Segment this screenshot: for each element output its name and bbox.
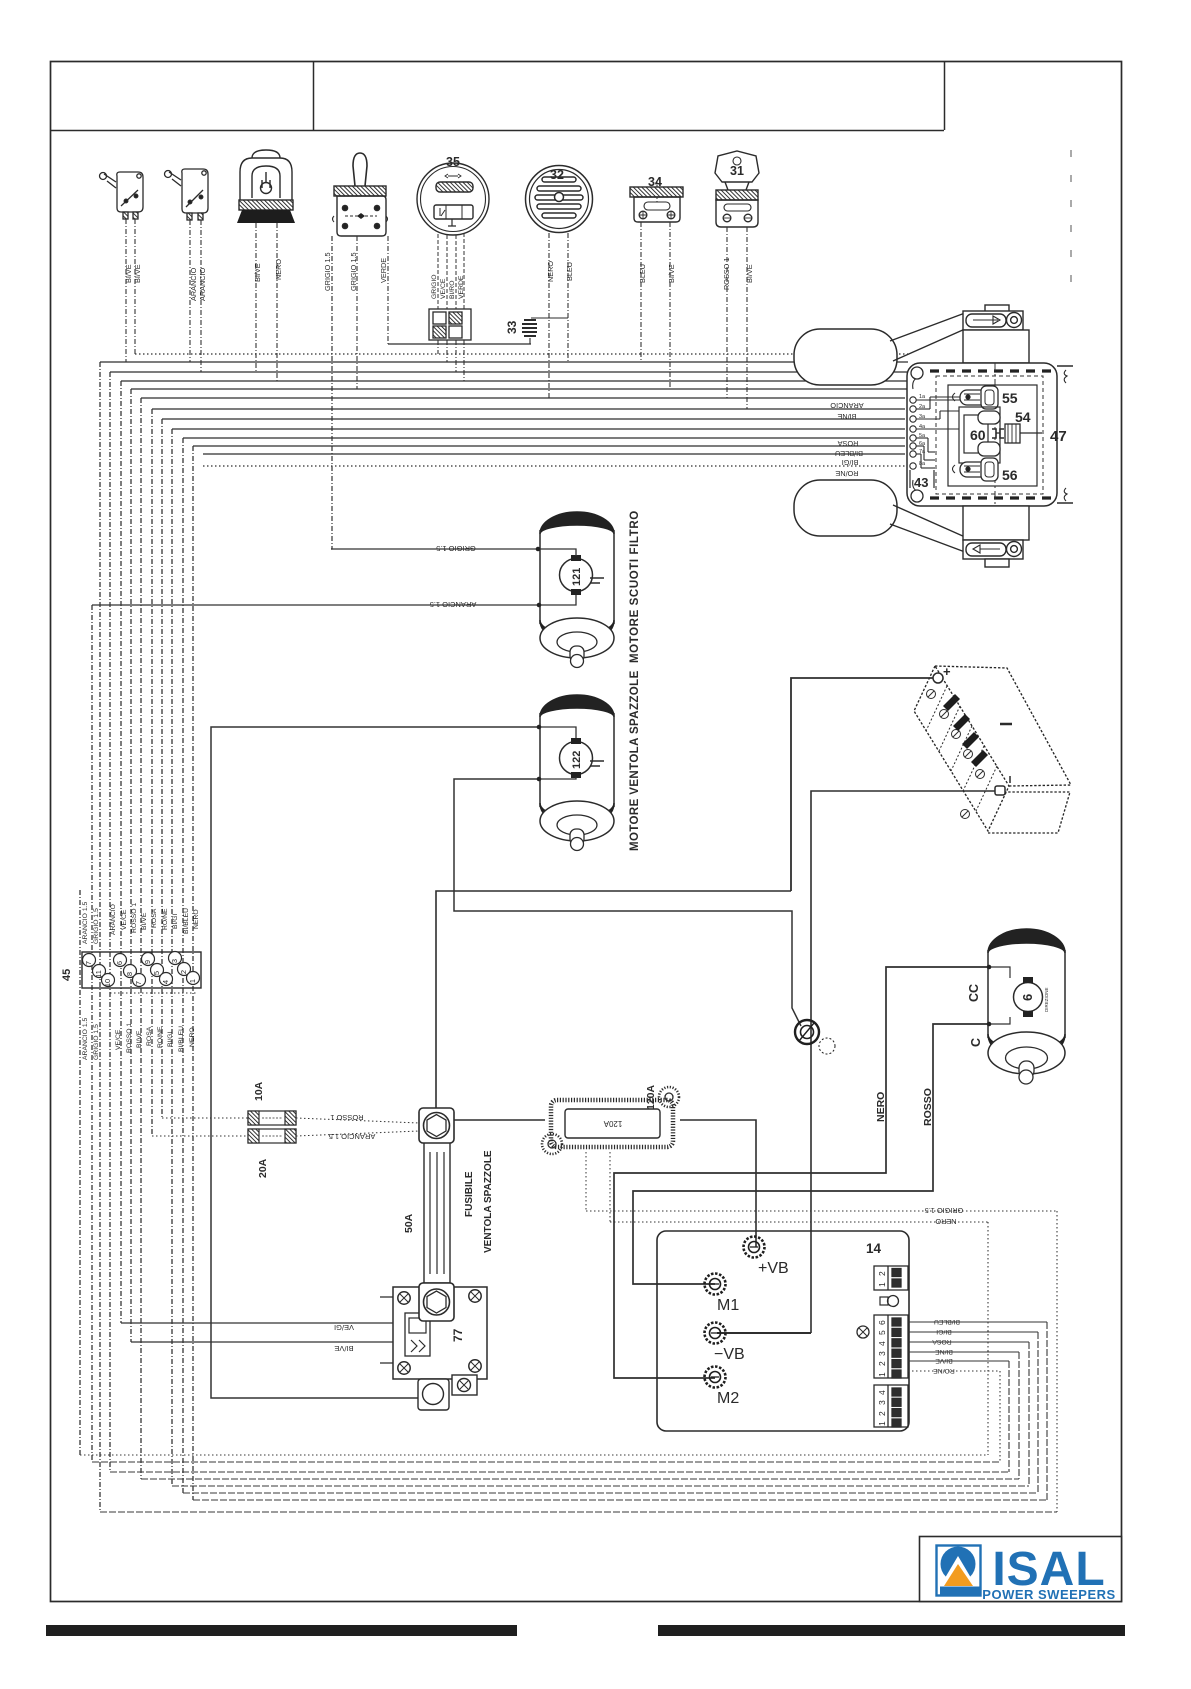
svg-text:35: 35 — [446, 155, 460, 169]
wire horn NERO — [548, 233, 550, 398]
wire J1 pin2 BI/VE — [908, 1360, 1009, 1362]
wire bottom row y1455 dotted — [80, 1454, 988, 1456]
svg-text:8: 8 — [125, 972, 134, 976]
wire beacon pin2 — [276, 223, 278, 381]
wire row y419 — [162, 418, 905, 420]
connector J1 pin numbers — [877, 1320, 887, 1377]
upper bracket — [963, 305, 1023, 330]
wire J1 pin3 BI/NE — [908, 1351, 1019, 1353]
header table divider 1 — [313, 62, 315, 130]
svg-text:ARANCIO 1.5: ARANCIO 1.5 — [82, 1017, 89, 1060]
svg-text:43: 43 — [914, 475, 928, 490]
svg-text:1: 1 — [877, 1372, 887, 1377]
svg-text:ROSSO: ROSSO — [922, 1088, 934, 1126]
connector J3 pin numbers — [877, 1390, 887, 1426]
svg-text:BI/VE: BI/VE — [133, 264, 142, 283]
svg-text:120A: 120A — [603, 1119, 622, 1128]
logo box border — [920, 1537, 1122, 1602]
battery cell dividers — [926, 686, 997, 811]
motor 121 MOTORE SCUOTI FILTRO — [540, 512, 614, 668]
svg-text:BI/VE: BI/VE — [667, 264, 676, 283]
svg-text:3: 3 — [170, 959, 179, 963]
wire S1 pin2 — [134, 219, 136, 354]
wire -VB to battery minus — [717, 1332, 811, 1334]
wire bundle x121 — [120, 381, 122, 1323]
wire row y398 — [141, 397, 905, 399]
lower column — [963, 506, 1029, 540]
wire row y354 dotted — [135, 353, 908, 355]
lower arm — [890, 505, 965, 552]
wire labels above strip 45 — [82, 901, 200, 944]
svg-text:2: 2 — [877, 1361, 887, 1366]
svg-text:BI/VE: BI/VE — [124, 264, 133, 283]
wire GRIGIO 1.5 to motor 121 — [331, 549, 576, 556]
svg-text:NERO: NERO — [189, 1027, 196, 1047]
strip 45 terminal circles — [83, 952, 200, 987]
svg-text:ROSSO 1: ROSSO 1 — [131, 903, 138, 933]
wire bottom row y1462 — [92, 1461, 1000, 1463]
svg-text:RO/NE: RO/NE — [162, 908, 169, 930]
svg-text:BI/BLEU: BI/BLEU — [934, 1318, 960, 1325]
upper column — [963, 330, 1029, 363]
terminal M1 — [705, 1274, 726, 1295]
pin numbers — [919, 394, 926, 467]
svg-text:ROSSO 1: ROSSO 1 — [330, 1113, 363, 1122]
terminal +VB — [744, 1237, 765, 1258]
wire row y389 — [131, 388, 908, 390]
ISAL logo square — [937, 1546, 981, 1596]
dashed row GRIGIO 1.5 — [586, 1210, 1057, 1212]
fuse 20A — [248, 1129, 296, 1143]
svg-text:NERO: NERO — [546, 261, 555, 282]
wire battery plus — [791, 678, 933, 891]
svg-text:ROSA: ROSA — [146, 1026, 153, 1046]
wire row y409 — [152, 408, 905, 410]
svg-text:POWER SWEEPERS: POWER SWEEPERS — [982, 1587, 1115, 1602]
svg-text:ROSSO 1: ROSSO 1 — [722, 258, 731, 290]
wire row y438 — [183, 437, 905, 439]
connector J2 2-pin — [874, 1266, 908, 1290]
svg-text:BI/VE: BI/VE — [136, 1030, 143, 1048]
wire labels below strip 45 — [82, 1017, 196, 1060]
svg-text:VERDE: VERDE — [458, 275, 465, 299]
svg-text:GRIGIO 1.5: GRIGIO 1.5 — [925, 1206, 964, 1215]
wire J1 pin1 RO/NE — [908, 1370, 1000, 1372]
svg-text:6: 6 — [115, 961, 124, 965]
controller box 14 — [657, 1231, 909, 1431]
wire right x1029 — [1028, 1342, 1030, 1486]
svg-text:GRIGIO: GRIGIO — [431, 274, 438, 299]
svg-text:ROSA: ROSA — [932, 1338, 952, 1345]
wire 31 BI/VE — [746, 227, 748, 409]
svg-text:VENTOLA SPAZZOLE: VENTOLA SPAZZOLE — [483, 1150, 494, 1253]
left bundle vertical wires — [80, 362, 193, 1512]
wire S1 pin1 — [125, 219, 127, 362]
wire bundle x141 — [140, 398, 142, 1479]
svg-text:33: 33 — [505, 320, 519, 334]
connector key circle — [888, 1296, 899, 1307]
wire labels at steering (mirrored) — [830, 401, 864, 478]
svg-text:1a: 1a — [919, 394, 926, 400]
svg-text:34: 34 — [648, 175, 662, 189]
svg-text:2: 2 — [877, 1271, 887, 1276]
wire 50A fuse to battery plus — [436, 891, 791, 1108]
wire bundle x80 — [79, 890, 81, 1455]
wire battery minus — [811, 791, 995, 1333]
svg-text:MOTORE VENTOLA SPAZZOLE: MOTORE VENTOLA SPAZZOLE — [629, 670, 641, 851]
svg-text:5: 5 — [152, 971, 161, 975]
svg-text:47: 47 — [1050, 428, 1067, 445]
horn 32 — [526, 166, 593, 233]
svg-text:7: 7 — [134, 981, 143, 985]
wire row y429 — [172, 428, 905, 430]
bottom nest rows — [80, 1455, 1057, 1512]
wire motor 122 upper to contactor 77 — [211, 727, 539, 1398]
wire fuse 10A to 50A ROSSO 1 — [296, 1118, 419, 1123]
wire right x1019 — [1018, 1352, 1020, 1479]
wire 34 BLEU — [640, 222, 642, 362]
svg-text:C: C — [969, 1038, 983, 1047]
svg-text:ROSA: ROSA — [151, 908, 158, 928]
wire toggle pin2 — [356, 236, 358, 389]
inner dashed box — [936, 376, 1043, 494]
wire bottom row y1479 — [141, 1478, 1019, 1480]
wire right x1009 — [1008, 1361, 1010, 1472]
battery plus terminal — [933, 673, 943, 683]
svg-text:32: 32 — [550, 168, 564, 182]
fuse 50A bottom nut — [419, 1283, 454, 1321]
dashed row NERO — [610, 1221, 988, 1223]
housing corner bolts — [911, 367, 923, 379]
wire J1 pin6 BI/BLEU — [908, 1321, 1047, 1323]
svg-text:2: 2 — [179, 970, 188, 974]
terminal strip 45 — [82, 952, 201, 988]
wire bundle to fuse 10A — [162, 1117, 248, 1119]
svg-text:RO/NE: RO/NE — [933, 1367, 955, 1374]
housing dash rows — [930, 369, 1056, 372]
svg-text:+VB: +VB — [758, 1260, 789, 1277]
wires gauge to connector — [438, 233, 464, 309]
svg-text:ARANCIO 1.5: ARANCIO 1.5 — [430, 600, 477, 609]
svg-text:56: 56 — [1002, 467, 1018, 483]
connector block under gauge 35 — [429, 309, 471, 340]
wire S2 pin1 — [189, 220, 191, 362]
battery cell caps — [927, 690, 985, 819]
svg-text:BI/RO: BI/RO — [449, 280, 456, 299]
connector 54 — [992, 424, 1042, 443]
footer bar right — [658, 1625, 1125, 1636]
microswitch S2 — [165, 169, 209, 220]
svg-text:1: 1 — [188, 979, 197, 983]
wire toggle pin3 VERDE — [387, 236, 389, 344]
battery — [914, 666, 1071, 833]
svg-text:GRIGIO 1.5: GRIGIO 1.5 — [93, 1024, 100, 1060]
svg-text:BLEU: BLEU — [565, 262, 574, 281]
svg-text:BI/BLEU: BI/BLEU — [835, 449, 863, 458]
wire bundle x162 — [161, 419, 163, 1118]
wire S2 pin2 — [200, 220, 202, 372]
svg-text:VE/CE: VE/CE — [440, 278, 447, 299]
wire row y362 — [100, 361, 908, 363]
fuse 120A — [542, 1087, 679, 1154]
svg-text:NERO: NERO — [875, 1092, 887, 1122]
svg-text:6: 6 — [1020, 994, 1035, 1001]
wire bottom row y1500 — [193, 1499, 1047, 1501]
svg-text:ARANCIO 1.5: ARANCIO 1.5 — [329, 1132, 376, 1141]
svg-text:GRIGIO 1.5: GRIGIO 1.5 — [323, 252, 332, 291]
battery connector flags — [943, 694, 988, 767]
toggle switch — [333, 153, 388, 236]
header table divider 2 — [944, 62, 946, 130]
svg-text:5: 5 — [877, 1330, 887, 1335]
svg-text:NERO: NERO — [193, 909, 200, 929]
mid dotted vertical GRIGIO — [585, 1152, 587, 1211]
svg-text:BLEU: BLEU — [638, 264, 647, 283]
wire row VERDE y344 — [388, 343, 531, 345]
wire J1 pin4 ROSA — [908, 1341, 1029, 1343]
svg-text:55: 55 — [1002, 390, 1018, 406]
upper arm — [890, 313, 965, 361]
svg-text:VE/CE: VE/CE — [115, 1029, 122, 1050]
wire bottom row y1493 — [183, 1492, 1038, 1494]
svg-text:9: 9 — [143, 960, 152, 964]
svg-text:4: 4 — [877, 1390, 887, 1395]
gauge 35 — [417, 163, 489, 235]
svg-text:ARANCIO 1.5: ARANCIO 1.5 — [82, 901, 89, 944]
motor 122 MOTORE VENTOLA SPAZZOLE — [540, 695, 614, 851]
ring junction — [795, 1020, 835, 1054]
wire bundle x183 — [182, 438, 184, 1493]
dotted line under strip 45 — [110, 992, 196, 994]
contactor 77 — [380, 1287, 487, 1379]
svg-text:M1: M1 — [717, 1297, 739, 1314]
connector J3 4-pin — [874, 1385, 908, 1427]
housing center axis — [994, 363, 996, 506]
relay 55 — [953, 386, 999, 409]
wire bundle x92 ARANCIO 1.5 — [91, 605, 93, 1462]
svg-text:+: + — [943, 664, 951, 679]
fuse 10A — [248, 1111, 296, 1125]
motor 6 — [988, 929, 1065, 1084]
wire right x1000 — [999, 1371, 1001, 1462]
wire 31 ROSSO — [726, 227, 728, 398]
connector J1 6-pin — [874, 1315, 908, 1378]
svg-text:BI/VE: BI/VE — [935, 1357, 953, 1364]
motor 122 brush circle — [560, 742, 593, 775]
steering terminal pins — [910, 397, 916, 469]
svg-text:DIREZIONE: DIREZIONE — [1044, 987, 1049, 1012]
wire bundle x193 — [192, 446, 194, 1500]
wire row y466 dotted — [203, 465, 905, 467]
svg-text:BI/VE: BI/VE — [253, 263, 262, 282]
svg-text:−VB: −VB — [714, 1346, 745, 1363]
wire right x1047 — [1046, 1322, 1048, 1500]
wires connector block down — [438, 340, 464, 381]
wire toggle pin1 to motor 121 — [331, 236, 332, 549]
svg-text:6: 6 — [877, 1320, 887, 1325]
wire right x1057 — [1056, 1211, 1058, 1512]
microswitch S1 — [100, 172, 144, 219]
wire 77 feed VE/GI — [121, 1322, 393, 1324]
battery minus terminal — [995, 786, 1005, 795]
svg-text:VERDE: VERDE — [379, 258, 388, 283]
svg-text:M2: M2 — [717, 1390, 739, 1407]
connector 34 — [630, 181, 683, 222]
wire motor 122 lower to ring — [454, 779, 801, 1026]
svg-text:GRIGIO 1.5: GRIGIO 1.5 — [93, 908, 100, 944]
svg-text:ARANCIO: ARANCIO — [198, 267, 207, 301]
svg-text:MOTORE SCUOTI FILTRO: MOTORE SCUOTI FILTRO — [629, 510, 641, 663]
svg-text:BI/GI: BI/GI — [936, 1328, 952, 1335]
harness horizontal rows — [100, 344, 908, 466]
wire 50A to 120A — [454, 1119, 545, 1121]
svg-text:3: 3 — [877, 1351, 887, 1356]
wire fuse 20A to 50A ARANCIO 1.5 — [296, 1131, 419, 1136]
wire 120A to +VB — [680, 1120, 756, 1247]
buzzer 33 — [522, 318, 568, 344]
svg-text:7: 7 — [84, 961, 93, 965]
wire right x1038 — [1037, 1332, 1039, 1493]
fuse 50A FUSIBILE VENTOLA SPAZZOLE — [419, 1108, 454, 1321]
inner solid box — [948, 385, 1037, 486]
svg-text:4: 4 — [161, 980, 170, 984]
svg-text:BI/BLEU: BI/BLEU — [183, 908, 190, 934]
mid dotted vertical NERO — [609, 1152, 611, 1222]
wire horn BLEU — [567, 233, 569, 362]
wire bottom row y1472 — [110, 1471, 1009, 1473]
wire row y381 — [121, 380, 908, 382]
strip 45 pin numbers — [84, 959, 197, 987]
wire motor6 CC to M2 NERO — [614, 967, 989, 1378]
svg-text:4: 4 — [877, 1341, 887, 1346]
svg-text:10: 10 — [103, 979, 112, 987]
header table bottom line — [51, 130, 945, 132]
svg-text:BI/VE: BI/VE — [334, 1344, 353, 1353]
svg-text:ARANCIO: ARANCIO — [830, 401, 864, 410]
connector 43 outline — [910, 470, 934, 488]
wire 34 BI/VE — [669, 222, 671, 389]
svg-text:77: 77 — [451, 1328, 465, 1342]
svg-text:BI/GI: BI/GI — [842, 458, 859, 467]
svg-text:CC: CC — [967, 984, 981, 1002]
svg-text:RO/NE: RO/NE — [157, 1026, 164, 1048]
relay 56 — [953, 458, 999, 481]
svg-text:NERO: NERO — [274, 259, 283, 280]
terminal -VB — [705, 1323, 726, 1344]
wire row y454 — [203, 453, 905, 455]
svg-text:1: 1 — [877, 1421, 887, 1426]
svg-text:120A: 120A — [645, 1084, 657, 1110]
block 60 — [959, 407, 1000, 463]
svg-text:FUSIBILE: FUSIBILE — [464, 1171, 475, 1217]
svg-text:RO/NE: RO/NE — [835, 469, 858, 478]
svg-text:ROSSO 1: ROSSO 1 — [126, 1023, 133, 1053]
wire bundle x110 — [109, 372, 111, 1472]
wire motor6 C to M1 ROSSO — [633, 1024, 989, 1284]
svg-text:20A: 20A — [257, 1158, 269, 1178]
svg-text:121: 121 — [571, 568, 583, 586]
svg-text:BI/GI: BI/GI — [167, 1031, 174, 1047]
svg-text:60: 60 — [970, 427, 986, 443]
svg-text:3: 3 — [877, 1400, 887, 1405]
svg-text:2: 2 — [877, 1411, 887, 1416]
motor 121 brush circle — [560, 559, 593, 592]
svg-text:8a: 8a — [919, 461, 926, 467]
terminal M2 — [705, 1367, 726, 1388]
pin stub wires — [916, 397, 960, 468]
wire bottom row y1486 — [172, 1485, 1029, 1487]
beacon lamp — [237, 150, 295, 223]
wire right x988 — [987, 1222, 989, 1455]
svg-text:11: 11 — [94, 970, 103, 978]
wire bundle to fuse 20A — [152, 1135, 248, 1137]
svg-text:50A: 50A — [403, 1213, 415, 1233]
motor 6 brush circle — [1014, 983, 1043, 1012]
wire bottom row y1512 — [100, 1511, 1057, 1513]
svg-text:122: 122 — [571, 751, 583, 769]
svg-text:31: 31 — [730, 164, 744, 178]
wire J1 pin5 BI/GI — [908, 1331, 1038, 1333]
wire bundle x172 — [171, 429, 173, 1486]
svg-text:1: 1 — [877, 1282, 887, 1287]
svg-text:BI/VE: BI/VE — [141, 912, 148, 930]
wire bundle x152 — [151, 409, 153, 1136]
svg-text:45: 45 — [61, 969, 73, 981]
contactor 77 pad — [418, 1375, 477, 1410]
upper tire — [794, 329, 897, 385]
svg-text:BI/GI: BI/GI — [172, 913, 179, 929]
svg-text:BI/NE: BI/NE — [935, 1348, 953, 1355]
lower bracket — [963, 540, 1023, 567]
ground screw symbol — [857, 1326, 869, 1338]
svg-text:VE/GI: VE/GI — [334, 1323, 354, 1332]
svg-text:BI/VE: BI/VE — [745, 264, 754, 283]
wire bundle x100 — [99, 362, 101, 1512]
wire 77 feed BI/VE — [131, 1341, 393, 1343]
svg-text:GRIGIO 1.5: GRIGIO 1.5 — [436, 544, 476, 553]
registration dash mark — [1070, 150, 1072, 285]
wire row y446 — [193, 445, 905, 447]
svg-text:NERO: NERO — [935, 1217, 956, 1226]
relay 54 pills — [978, 411, 1000, 456]
svg-text:10A: 10A — [253, 1081, 265, 1101]
lower tire — [794, 480, 897, 536]
svg-text:54: 54 — [1015, 409, 1031, 425]
footer bar left — [46, 1625, 517, 1636]
key switch 31 — [715, 151, 759, 227]
svg-text:14: 14 — [866, 1241, 882, 1256]
wire row y372 — [110, 371, 908, 373]
wire ARANCIO 1.5 to motor 121 — [92, 595, 576, 605]
svg-text:BI/NE: BI/NE — [837, 412, 856, 421]
svg-text:ARANCIO: ARANCIO — [110, 904, 117, 935]
right side vertical bundle — [988, 1211, 1057, 1512]
svg-text:VE/CE: VE/CE — [121, 909, 128, 930]
svg-text:BI/BLEU: BI/BLEU — [178, 1026, 185, 1052]
wire beacon pin1 — [255, 223, 257, 372]
svg-text:ROSA: ROSA — [838, 439, 859, 448]
wire bundle x131 — [130, 389, 132, 1342]
steering housing — [907, 363, 1073, 506]
